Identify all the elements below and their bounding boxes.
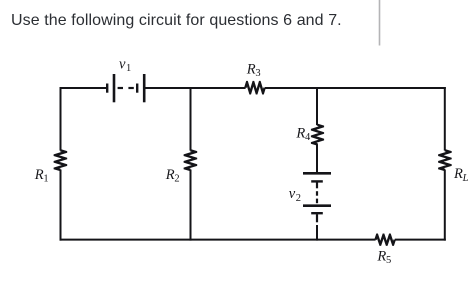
wire top rail right segment	[265, 88, 445, 89]
svg-text:v: v	[119, 57, 126, 73]
node junction bottom of R2 branch	[190, 238, 192, 241]
resistor R1	[54, 149, 68, 171]
svg-text:R: R	[165, 167, 175, 183]
label v2	[289, 186, 301, 204]
label RL	[453, 166, 469, 184]
label R4	[295, 126, 311, 144]
svg-text:R: R	[246, 61, 256, 77]
node junction top of R2 branch	[190, 88, 192, 89]
wire R4 branch from top rail	[316, 87, 318, 125]
wire bottom rail left segment	[60, 239, 376, 241]
resistor R2	[184, 149, 198, 171]
label R3	[246, 61, 261, 79]
wire left rail upper	[60, 87, 62, 151]
svg-text:R: R	[376, 248, 386, 264]
svg-text:v: v	[289, 186, 296, 202]
wire R2 branch lower	[190, 170, 192, 241]
label v1	[119, 57, 131, 75]
svg-text:1: 1	[43, 174, 48, 185]
svg-text:4: 4	[305, 132, 311, 143]
svg-text:R: R	[453, 166, 463, 182]
title text	[11, 13, 342, 29]
svg-text:2: 2	[296, 193, 301, 204]
svg-text:L: L	[462, 173, 469, 184]
wire right rail lower	[444, 170, 446, 241]
battery V2	[303, 173, 331, 222]
wire right rail upper	[444, 87, 446, 151]
svg-text:1: 1	[126, 63, 131, 74]
resistor R5	[374, 234, 395, 246]
svg-text:R: R	[295, 126, 305, 142]
resistor R4	[311, 124, 324, 146]
svg-text:3: 3	[255, 68, 260, 79]
wire top rail middle segment	[144, 87, 245, 89]
label R2	[165, 167, 180, 185]
page divider line	[379, 0, 381, 46]
svg-text:5: 5	[386, 255, 391, 266]
wire bottom rail right segment	[395, 239, 446, 241]
node junction bottom of V2 branch	[316, 238, 318, 241]
resistor R3	[244, 81, 266, 95]
resistor RL	[438, 149, 452, 171]
wire V2 to bottom rail	[316, 225, 318, 241]
battery V1	[107, 74, 144, 102]
wire top rail left segment	[61, 88, 107, 89]
label R5	[376, 248, 391, 266]
svg-text:2: 2	[174, 174, 179, 185]
wire left rail lower	[60, 170, 62, 241]
wire R4 to battery V2	[316, 144, 318, 172]
label R1	[34, 167, 49, 185]
wire R2 branch upper	[190, 88, 192, 151]
node junction top of R4 branch	[316, 88, 318, 89]
svg-text:R: R	[34, 167, 44, 183]
